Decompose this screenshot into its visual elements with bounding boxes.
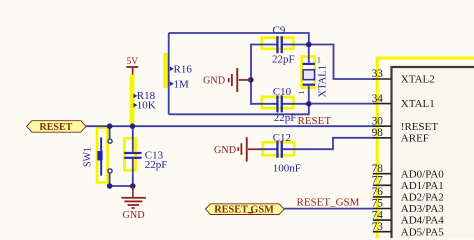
svg-text:AD3/PA3: AD3/PA3 bbox=[401, 203, 444, 215]
svg-text:R16: R16 bbox=[174, 63, 193, 75]
svg-text:34: 34 bbox=[372, 93, 384, 105]
svg-text:AD1/PA1: AD1/PA1 bbox=[401, 180, 444, 192]
svg-text:RESET GSM: RESET GSM bbox=[214, 205, 274, 216]
svg-text:AD4/PA4: AD4/PA4 bbox=[401, 215, 444, 227]
svg-text:GND: GND bbox=[123, 210, 145, 221]
svg-text:!RESET: !RESET bbox=[401, 121, 439, 133]
svg-text:1: 1 bbox=[296, 91, 306, 95]
svg-text:77: 77 bbox=[372, 175, 384, 187]
svg-text:73: 73 bbox=[372, 221, 384, 233]
svg-text:AD0/PA0: AD0/PA0 bbox=[401, 168, 444, 180]
svg-text:XTAL2: XTAL2 bbox=[401, 74, 435, 86]
svg-text:10K: 10K bbox=[137, 99, 156, 111]
svg-text:AD5/PA5: AD5/PA5 bbox=[401, 226, 444, 238]
svg-text:5V: 5V bbox=[127, 57, 139, 67]
svg-text:75: 75 bbox=[372, 198, 384, 210]
svg-text:XTAL1: XTAL1 bbox=[317, 65, 328, 97]
svg-text:1: 1 bbox=[317, 55, 321, 65]
svg-text:33: 33 bbox=[372, 68, 384, 80]
svg-text:SW1: SW1 bbox=[83, 147, 94, 167]
svg-text:C10: C10 bbox=[273, 86, 292, 98]
svg-text:76: 76 bbox=[372, 186, 384, 198]
svg-text:22pF: 22pF bbox=[272, 53, 295, 65]
svg-text:1M: 1M bbox=[174, 79, 190, 91]
svg-text:98: 98 bbox=[372, 127, 384, 139]
svg-text:C12: C12 bbox=[273, 132, 291, 144]
svg-text:30: 30 bbox=[372, 115, 384, 127]
svg-text:RESET_GSM: RESET_GSM bbox=[297, 196, 360, 208]
svg-text:RESET: RESET bbox=[298, 115, 332, 127]
svg-text:78: 78 bbox=[372, 163, 384, 175]
svg-text:22pF: 22pF bbox=[274, 112, 297, 124]
svg-text:RESET: RESET bbox=[40, 122, 73, 133]
svg-text:22pF: 22pF bbox=[145, 159, 168, 171]
svg-text:AD2/PA2: AD2/PA2 bbox=[401, 192, 444, 204]
svg-text:74: 74 bbox=[372, 209, 384, 221]
svg-text:AREF: AREF bbox=[401, 132, 429, 144]
svg-text:XTAL1: XTAL1 bbox=[401, 98, 435, 110]
svg-text:100nF: 100nF bbox=[273, 162, 301, 174]
svg-text:GND: GND bbox=[203, 76, 225, 87]
svg-text:C9: C9 bbox=[273, 24, 286, 36]
svg-text:GND: GND bbox=[214, 145, 236, 156]
